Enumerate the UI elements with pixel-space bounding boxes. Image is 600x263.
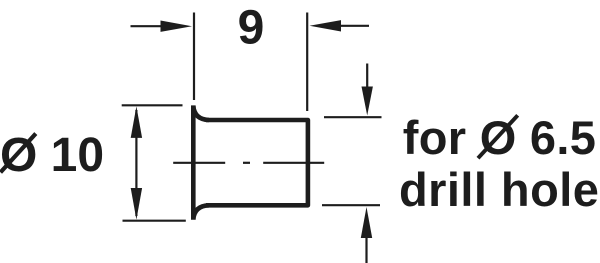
drill-hole dimension: top arrow (pointing down): [366, 64, 368, 93]
sleeve top lip fillet: [193, 106, 209, 120]
diameter slash for O10: [1, 134, 36, 173]
drill-hole dimension: bottom arrow (pointing up): [365, 234, 367, 263]
dimension O10: dimension line with arrows: [135, 110, 137, 216]
drill-hole dimension: bottom extension line: [322, 204, 380, 206]
dimension 9: right arrow: [336, 25, 369, 27]
dimension 9: left arrow: [131, 25, 164, 27]
sleeve body outline: [206, 120, 308, 205]
center line: [173, 162, 324, 164]
dimension 9: right extension line: [306, 13, 308, 112]
sleeve bottom lip fillet: [193, 205, 209, 219]
drill-hole dimension: top extension line: [324, 116, 382, 118]
dimension O10: bottom extension line: [123, 220, 186, 222]
svg-text:drill hole: drill hole: [399, 163, 599, 216]
dimension O10: top extension line: [122, 104, 183, 106]
diameter slash for O 6.5: [478, 115, 518, 158]
dimension 9: left extension line: [193, 13, 195, 101]
svg-text:9: 9: [238, 2, 265, 55]
sleeve flange face (left edge): [191, 105, 196, 219]
